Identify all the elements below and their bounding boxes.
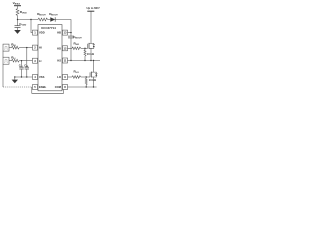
node VBIAS terminal (14, 5, 21, 7)
svg-text:DBOOT: DBOOT (49, 12, 58, 17)
pin numbers (34, 31, 67, 89)
wire VDD node horizontal (18, 19, 39, 21)
svg-text:VBIAS: VBIAS (13, 1, 21, 6)
svg-text:HS: HS (57, 59, 61, 63)
wire VDD drop to pin1 (31, 20, 33, 33)
svg-text:CBOOT: CBOOT (73, 35, 82, 40)
svg-text:ENBL: ENBL (39, 85, 47, 89)
svg-text:COM: COM (55, 85, 62, 89)
pin 1 box (33, 30, 38, 35)
node HI filter junction (26, 47, 27, 48)
pin 2 box (33, 45, 38, 50)
node HV terminal (87, 10, 94, 12)
svg-text:VSS: VSS (39, 75, 45, 79)
svg-text:CVDD: CVDD (19, 22, 26, 27)
svg-text:RVDD: RVDD (20, 10, 27, 15)
svg-text:10 kΩ: 10 kΩ (87, 52, 94, 56)
labels (11, 1, 101, 82)
wire input common (2, 51, 4, 57)
node HB junction (70, 32, 71, 33)
junction dots (14, 19, 94, 88)
wire ENBL dashed (3, 86, 33, 88)
svg-text:10 kΩ: 10 kΩ (89, 78, 96, 82)
ground (CVDD) (14, 30, 21, 34)
svg-text:CLI: CLI (19, 63, 23, 67)
transistor Q1 (87, 44, 89, 49)
resistor RLI (9, 60, 12, 62)
capacitor CBOOT (70, 33, 72, 37)
svg-text:13: 13 (64, 31, 67, 35)
body diode Q1 (91, 42, 94, 45)
svg-text:LI: LI (39, 59, 42, 63)
resistor RLO (72, 76, 81, 79)
pin 11 box (63, 58, 68, 63)
svg-text:Up to 600 V: Up to 600 V (87, 6, 101, 10)
wire COM (68, 86, 97, 88)
svg-text:RHO: RHO (74, 42, 80, 47)
pin 9 box (63, 75, 68, 80)
svg-text:RLI: RLI (11, 56, 16, 61)
svg-text:CHI: CHI (24, 63, 28, 67)
wire HO (68, 47, 73, 49)
pin 12 box (63, 46, 68, 51)
wire HS switch node (68, 60, 101, 62)
resistor Q2 gate-source (85, 77, 87, 87)
diode DBOOT (48, 19, 51, 21)
svg-text:RLO: RLO (74, 70, 80, 75)
wire ENBL-COM bottom link (32, 87, 64, 93)
capacitor CLI (21, 61, 23, 67)
svg-text:UCC27714: UCC27714 (41, 26, 56, 30)
wire LO (68, 76, 73, 78)
svg-text:LO: LO (57, 75, 61, 79)
node VSS junctions (14, 76, 15, 77)
node COM junctions (86, 86, 87, 87)
capacitor CVDD (17, 20, 19, 26)
wire VSS (15, 76, 33, 78)
pin 4 box (33, 75, 38, 80)
pin 13 box (63, 30, 68, 35)
svg-text:HI: HI (39, 46, 42, 50)
capacitor CHI (26, 48, 28, 68)
node HS junctions (70, 60, 71, 61)
pin 5 box (33, 85, 38, 90)
resistor RVDD (16, 9, 19, 16)
node LI filter junction (21, 60, 22, 61)
pin names (39, 31, 62, 89)
svg-text:VDD: VDD (39, 31, 45, 35)
resistor RHO (72, 47, 81, 50)
IC U1 UCC27714 body (38, 25, 62, 91)
wire HB pin (68, 32, 72, 34)
resistor Q1 gate-source (84, 48, 86, 60)
svg-text:HB: HB (57, 31, 61, 35)
resistor RBOOT (38, 18, 48, 21)
input source box HI (3, 44, 9, 51)
body diode Q2 (94, 71, 97, 74)
transistor Q2 (89, 72, 91, 77)
node VDD junction (17, 19, 18, 20)
resistor RHI (9, 47, 12, 49)
node Q1 gate junction (84, 48, 85, 49)
svg-text:RBOOT: RBOOT (37, 12, 46, 17)
svg-text:RHI: RHI (11, 42, 16, 47)
ground (VSS) (12, 80, 18, 84)
node Q2 gate junction (86, 76, 87, 77)
svg-text:12: 12 (64, 46, 67, 50)
pin 3 box (33, 58, 38, 63)
pin 8 box (63, 85, 68, 90)
wire DBOOT to HB (55, 20, 71, 33)
svg-text:HO: HO (57, 46, 61, 50)
input source box LI (3, 57, 9, 64)
